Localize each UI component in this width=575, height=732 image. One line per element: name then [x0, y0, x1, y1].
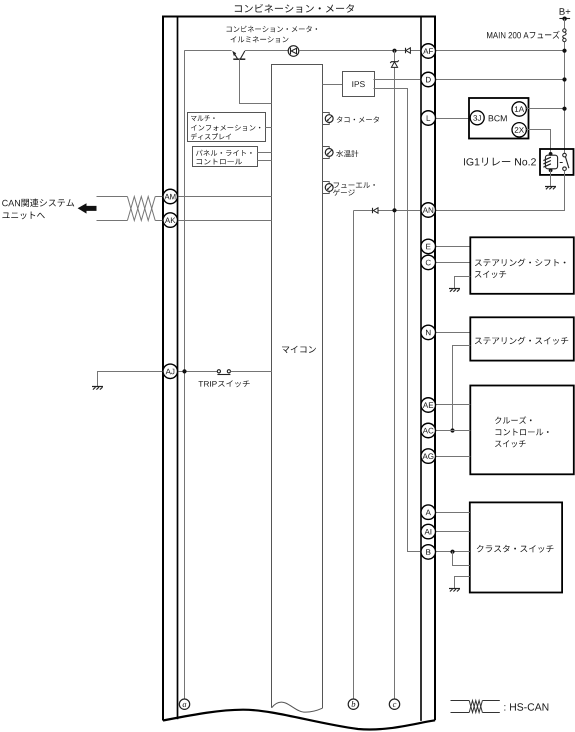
connector AG: [421, 449, 436, 464]
wire: emitter feed from terminal a (x=184.3): [184, 51, 186, 699]
connector L: [421, 111, 436, 126]
wire: lamp row to LED: [245, 50, 288, 52]
relay switch contact: [563, 153, 569, 170]
left connector strip line: [177, 17, 179, 720]
label コンビネーション・メータ・イルミネーション: [227, 26, 318, 43]
CAN twisted pair wires: [97, 197, 164, 221]
label B+: [560, 8, 571, 15]
steering switch box: [470, 317, 574, 360]
right connector strip line: [420, 17, 422, 721]
junction dot AJ x=184.3: [182, 369, 186, 373]
label CAN関連システムユニットへ: [2, 199, 74, 220]
wire: B row outside: [436, 551, 470, 553]
combination meter box コンビネーション・メータ: [163, 17, 435, 730]
multi-information display box: [188, 113, 266, 142]
wire: shift switch to ground: [455, 277, 471, 289]
wire: B branch lower: [453, 552, 470, 566]
ground (shift switch): [449, 289, 460, 292]
wire: N row: [436, 332, 471, 334]
connector D: [421, 72, 436, 87]
microcomputer box マイコン: [272, 65, 323, 713]
terminal a: [179, 699, 189, 709]
wire: 1A to B+: [526, 108, 564, 110]
wire: AJ to ground: [98, 372, 164, 387]
ground (relay coil): [545, 187, 556, 190]
label タコ・メータ: [337, 116, 379, 122]
junction dot B+/1A: [562, 107, 566, 111]
junction dot B row: [450, 550, 454, 554]
wire: AE row: [436, 404, 471, 406]
connector AN: [421, 203, 436, 218]
IPS box: [343, 72, 375, 97]
fuse MAIN 200 A: [563, 29, 566, 42]
terminal c: [389, 699, 399, 709]
wire: E row: [436, 246, 471, 248]
wire: micom to IPS: [323, 84, 343, 86]
connector 3J: [470, 111, 484, 125]
wire: AJ row inside: [178, 371, 218, 373]
wire: 2X to relay coil: [526, 130, 550, 154]
wire: AM row inside: [178, 196, 272, 198]
zener diode D2: [390, 60, 399, 67]
junction dot lamp row x=394.5: [392, 49, 396, 53]
junction dot AN x=394.5: [392, 208, 396, 212]
connector C: [421, 255, 436, 270]
wire: lamp row left segment: [184, 50, 231, 52]
wire: C row: [436, 262, 471, 264]
junction dot B+/AF: [562, 49, 566, 53]
junction dot B+/D: [562, 77, 566, 81]
legend: HS-CAN twisted pair symbol: [451, 701, 500, 713]
wire: AI row: [436, 531, 470, 533]
TRIP switch: [217, 370, 271, 375]
wire: panel control to micom (lower): [257, 160, 272, 162]
wire: B+ vertical feed: [564, 19, 566, 153]
wire: D row outside: [436, 79, 565, 81]
text BCM: [489, 115, 507, 121]
connector AF: [421, 44, 436, 59]
connector 1A: [512, 102, 526, 116]
text IPS: [352, 81, 364, 87]
wire: cluster switch to ground: [455, 577, 470, 589]
connector N: [421, 325, 436, 340]
wire: IPS to D: [374, 79, 421, 81]
gauge: fuel: [323, 182, 334, 194]
wire: lamp to AF diode: [299, 50, 421, 52]
terminal b: [348, 699, 358, 709]
ground (cluster switch): [449, 589, 460, 592]
connector E: [421, 239, 436, 254]
wire: AN row inside: [354, 210, 421, 212]
text マイコン: [282, 346, 316, 353]
wire: multi display to micom: [265, 127, 271, 129]
connector AI: [421, 524, 436, 539]
wire: relay coil to ground: [550, 170, 552, 186]
BCM box: [469, 98, 529, 139]
wire: vertical to terminal b: [353, 211, 355, 700]
wire: AG row: [436, 456, 471, 458]
steering shift switch box: [470, 237, 574, 293]
wire: panel control to micom (upper): [257, 152, 272, 154]
cluster switch box: [470, 502, 562, 592]
connector AC: [421, 423, 436, 438]
gauge: tachometer: [323, 113, 334, 125]
wire: AC row: [436, 430, 471, 432]
wire: L to BCM 3J: [436, 118, 471, 120]
label IG1リレー No.2: [464, 158, 536, 166]
label フューエル・ゲージ: [333, 182, 375, 196]
wire: vertical x=394.5 (lamp row to terminal c): [394, 51, 396, 700]
arrow to CAN related system units: [78, 203, 97, 213]
connector AJ: [163, 364, 178, 379]
relay coil: [543, 152, 562, 172]
connector 2X: [512, 123, 526, 137]
wire: A row: [436, 512, 470, 514]
title コンビネーション・メータ: [235, 4, 354, 13]
IG1 relay No.2 box: [540, 149, 574, 175]
B+ terminal: [559, 17, 570, 21]
lamp: illumination LED コンビネーション・メータ・イルミネーション: [288, 46, 299, 57]
junction dot AC branch: [450, 428, 454, 432]
wire: AF row outside: [436, 50, 565, 52]
connector B: [421, 545, 436, 560]
wire: IPS output down to B: [374, 89, 422, 552]
wire: relay switch to AN: [436, 171, 565, 211]
label : HS-CAN: [504, 703, 548, 710]
wire: steering switch branch to AC: [453, 346, 471, 431]
transistor Q1 (illumination driver): [232, 51, 271, 104]
cruise control switch box: [470, 386, 574, 475]
diode D1 before AF: [406, 48, 411, 53]
label 水温計: [336, 150, 358, 157]
connector AM: [163, 189, 178, 204]
connector AE: [421, 398, 436, 413]
gauge: water temperature: [323, 147, 334, 159]
ground (AJ row): [92, 387, 103, 390]
label MAIN 200 Aフューズ: [487, 31, 560, 39]
label TRIPスイッチ: [199, 380, 250, 387]
connector AK: [163, 213, 178, 228]
diode D3 on AN row: [373, 208, 379, 213]
panel light control box: [193, 147, 258, 167]
connector A: [421, 505, 436, 520]
wire: AK row inside: [178, 220, 272, 222]
